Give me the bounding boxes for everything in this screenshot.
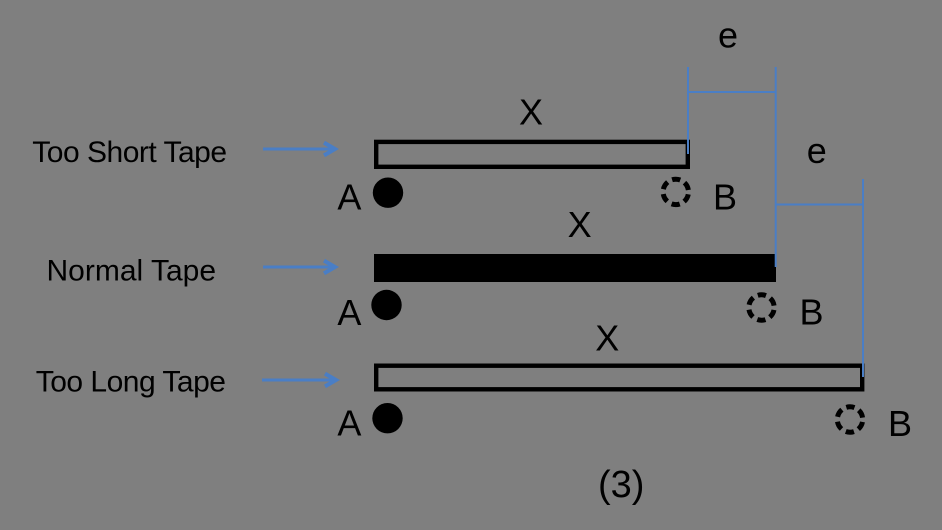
svg-text:Too Long Tape: Too Long Tape xyxy=(36,366,226,399)
svg-text:X: X xyxy=(568,204,592,245)
svg-text:A: A xyxy=(337,292,361,333)
svg-text:X: X xyxy=(595,317,619,358)
svg-text:e: e xyxy=(807,130,827,171)
svg-text:Normal Tape: Normal Tape xyxy=(47,254,217,287)
svg-text:B: B xyxy=(800,291,824,332)
svg-text:(3): (3) xyxy=(598,464,644,506)
svg-text:Too Short Tape: Too Short Tape xyxy=(32,136,226,169)
svg-text:X: X xyxy=(519,92,543,133)
svg-text:B: B xyxy=(888,403,912,444)
svg-text:A: A xyxy=(337,177,361,218)
svg-text:A: A xyxy=(337,403,361,444)
svg-text:B: B xyxy=(713,177,737,218)
svg-text:e: e xyxy=(718,15,738,56)
